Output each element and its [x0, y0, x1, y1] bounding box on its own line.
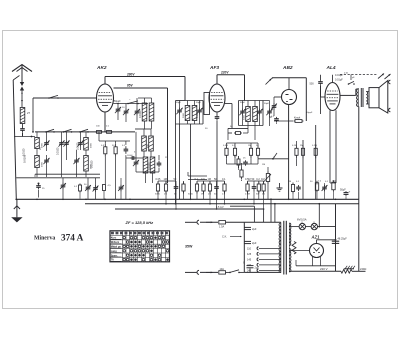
vertical feed x315.7	[315, 125, 317, 199]
resistor R18	[302, 145, 304, 148]
resistor R4	[115, 144, 117, 147]
capacitor osc link	[126, 157, 143, 159]
svg-text:ZF = 128,5 kHz: ZF = 128,5 kHz	[125, 220, 154, 225]
resistor/capacitor 50 x176	[175, 184, 177, 187]
svg-text:5000: 5000	[183, 112, 185, 118]
svg-text:0.0100: 0.0100	[76, 142, 79, 150]
wire mains top	[200, 221, 218, 223]
svg-text:0.0100: 0.0100	[56, 147, 59, 155]
wire AK2 cathode down	[104, 112, 106, 132]
resistor row AL4 a	[316, 181, 318, 183]
wire antenna lead-in	[21, 65, 23, 83]
lamp La2	[311, 223, 317, 229]
svg-text:0.2M: 0.2M	[312, 145, 317, 147]
oscillator coil L7b upper	[149, 103, 154, 121]
svg-text:5000: 5000	[197, 112, 199, 118]
trimmer osc C10	[125, 109, 127, 112]
trimmer C7	[87, 185, 89, 188]
svg-text:220V: 220V	[220, 71, 229, 75]
coil T2a	[246, 107, 251, 122]
power transformer core	[283, 221, 285, 275]
wire primary bottom down	[358, 107, 360, 200]
svg-text:2M: 2M	[300, 145, 303, 147]
svg-text:50µµF: 50µµF	[114, 101, 121, 103]
power transformer secondary upper	[289, 223, 291, 246]
coil T1a	[185, 106, 190, 121]
svg-text:10A: 10A	[220, 268, 225, 271]
wire grid line to AK2	[33, 97, 97, 99]
trimmer lower left	[120, 185, 122, 188]
vertical feed x303	[302, 140, 304, 199]
wire L2 links	[36, 132, 38, 138]
svg-text:220 V: 220 V	[320, 267, 328, 271]
fuse 10A	[219, 271, 226, 274]
resistor R11	[226, 145, 228, 148]
wire AK2 top cap to 280V rail	[104, 77, 106, 85]
IF transformer T1 frame	[175, 101, 177, 125]
resistor/capacitor row x183.5	[183, 182, 185, 185]
resistor bleeder 240	[341, 269, 352, 273]
wire AF3 top cap	[216, 75, 218, 84]
trimmer osc C9	[117, 107, 119, 110]
mains terminal top	[185, 221, 197, 223]
svg-text:0.0100: 0.0100	[148, 162, 151, 170]
oscillator coil L10	[150, 157, 155, 173]
svg-text:AK2: AK2	[96, 65, 107, 71]
wire switch row	[35, 131, 135, 133]
tube AF3	[209, 84, 225, 112]
wire AZ1 cathode to B+	[316, 240, 318, 244]
ground symbol	[16, 199, 18, 217]
resistor/capacitor 0.1 x197	[196, 182, 198, 185]
trimmer row AL4 b	[324, 185, 326, 188]
IF transformer T2 frame	[238, 101, 240, 126]
svg-text:Krach: Krach	[294, 117, 301, 120]
wire AB2 frame top	[272, 77, 306, 79]
svg-text:2µF: 2µF	[255, 267, 260, 270]
electrolytic 50uF+	[345, 191, 347, 193]
svg-text:27: 27	[27, 111, 31, 115]
svg-text:5000: 5000	[155, 194, 161, 196]
trimmer C-b1	[61, 140, 63, 143]
wire T1 primary return down	[179, 124, 181, 199]
wire bus drop b	[263, 209, 265, 222]
power transformer secondary lower	[289, 249, 291, 273]
svg-text:220: 220	[247, 264, 252, 267]
coil L3a	[84, 138, 89, 151]
trimmer C-a lower	[46, 158, 48, 161]
wire osc coil links	[143, 151, 145, 157]
svg-text:Minerva: Minerva	[34, 236, 55, 242]
capacitor 500pF	[320, 80, 322, 82]
trimmer T2 primary	[242, 109, 244, 112]
resistor R10 vertical mid	[241, 168, 243, 171]
wire bus drop d	[274, 204, 276, 223]
resistor bottom left pair	[79, 184, 81, 186]
svg-text:1M: 1M	[288, 181, 291, 183]
lamp La1	[299, 223, 305, 229]
coil L3b	[84, 156, 89, 172]
potentiometer volume	[267, 171, 269, 174]
wire chassis bus 2	[85, 203, 359, 205]
svg-text:4,5 mV: 4,5 mV	[216, 206, 224, 209]
switch S1b	[45, 131, 47, 133]
resistor R13	[250, 145, 252, 148]
resistor R19	[315, 145, 317, 148]
svg-text:50µµF: 50µµF	[306, 112, 313, 114]
svg-text:0000: 0000	[41, 161, 43, 167]
wire AZ1 pins	[312, 257, 314, 266]
capacitor C6 bottom	[38, 184, 40, 186]
svg-text:30pF: 30pF	[196, 102, 202, 104]
trimmer AB2 grid	[274, 96, 282, 98]
capacitor C11	[125, 146, 127, 149]
coil L2b	[35, 156, 40, 168]
wire AL4 grid line down	[320, 85, 322, 114]
terminal arrows top right	[378, 74, 384, 79]
resistor R15	[238, 156, 240, 159]
svg-text:280V: 280V	[126, 73, 135, 77]
trimmer T1 secondary	[199, 108, 201, 111]
arrow on antenna lead	[21, 95, 23, 102]
speaker terminals	[389, 80, 391, 84]
svg-text:AB2: AB2	[282, 65, 293, 71]
svg-text:6V/0,5A: 6V/0,5A	[297, 217, 307, 221]
wire AF3 screen link	[225, 103, 232, 105]
oscillator coil L8	[149, 136, 154, 151]
svg-text:5000: 5000	[188, 194, 194, 196]
svg-text:0.0100: 0.0100	[139, 110, 142, 118]
wire speaker return down	[358, 199, 360, 271]
mains terminal bottom	[185, 271, 197, 273]
trimmer T2 secondary	[259, 109, 261, 112]
ground symbol detector	[279, 183, 281, 188]
svg-text:0.01µF: 0.01µF	[335, 79, 343, 82]
resistor Krach	[294, 120, 296, 122]
svg-text:AZ1: AZ1	[311, 235, 321, 240]
wire antenna down to junction	[22, 133, 24, 137]
choke field coil zigzag	[292, 242, 296, 255]
wire component row top links	[158, 180, 176, 182]
wire chassis bus 3	[115, 208, 264, 210]
tube AB2	[282, 90, 297, 105]
wire L3 links	[85, 132, 87, 138]
svg-text:374 A: 374 A	[61, 233, 84, 243]
resistor row AL4 c	[333, 180, 335, 182]
wire AL4 plate to output transformer	[340, 94, 356, 96]
power transformer primary taps	[259, 247, 281, 249]
trimmer efter T2	[269, 109, 271, 112]
resistor R17	[292, 183, 294, 185]
resistor/capacitor 0.05 x158	[157, 182, 159, 185]
resistor/capacitor 50 x254	[253, 184, 255, 187]
svg-text:1M: 1M	[201, 194, 204, 196]
svg-text:0.5M: 0.5M	[245, 194, 250, 196]
tube AZ1 rectifier	[310, 244, 324, 258]
wire T1 secondary drop	[190, 124, 192, 199]
wire osc bottom row	[136, 171, 159, 173]
output transformer secondary	[366, 92, 368, 105]
capacitor C16	[298, 185, 300, 187]
resistor R1 under AK2	[95, 131, 97, 133]
svg-text:2µF: 2µF	[252, 241, 257, 245]
antenna coil L1	[20, 108, 25, 124]
wire screen rail drop	[167, 88, 169, 183]
tube AL4	[325, 83, 340, 111]
resistor R16	[296, 145, 298, 148]
wire AL4 grid feed	[320, 75, 322, 80]
trimmer C-c lower	[76, 158, 78, 161]
wire bus drop c	[270, 199, 272, 222]
wire chassis bus 1	[16, 198, 359, 200]
resistor/capacitor 1M x210	[209, 182, 211, 185]
wire AF3 cathode	[216, 112, 218, 115]
wire vertical branch x33	[32, 98, 34, 132]
resistor R12	[234, 145, 236, 148]
svg-text:110: 110	[247, 247, 252, 250]
svg-text:0000: 0000	[90, 142, 92, 148]
trimmer C5	[62, 183, 64, 186]
capacitor 2uF upper	[244, 226, 251, 228]
svg-text:AF3: AF3	[209, 65, 219, 71]
svg-text:+: +	[349, 190, 351, 194]
svg-text:30pF: 30pF	[176, 102, 182, 104]
svg-text:50µF: 50µF	[340, 189, 346, 192]
wire AB2 top to circle	[288, 78, 290, 90]
wire AL4 top cap	[332, 75, 334, 82]
svg-text:10000: 10000	[127, 155, 133, 157]
tube AK2	[97, 84, 114, 112]
wire mains to transformer	[244, 271, 280, 273]
oscillator coil L7	[142, 136, 147, 151]
output transformer primary	[357, 88, 359, 107]
arrow terminal AVC	[266, 79, 272, 85]
capacitor AF3 cathode	[216, 115, 218, 117]
svg-text:30pF: 30pF	[240, 102, 246, 104]
power transformer primary winding	[280, 222, 282, 272]
svg-text:48.25µF: 48.25µF	[338, 238, 348, 241]
switch osc	[127, 103, 129, 105]
wire AL4 cathode down	[329, 110, 331, 183]
svg-text:240Ω: 240Ω	[360, 267, 366, 271]
capacitor in antenna lead	[22, 127, 24, 129]
wire HV bottom	[289, 270, 341, 272]
svg-text:1.5A: 1.5A	[219, 226, 224, 229]
coil T2b	[253, 107, 258, 122]
svg-text:85V: 85V	[127, 84, 134, 88]
wire AL4 screen down	[335, 110, 337, 183]
wire heater dashed top	[340, 74, 377, 76]
wire antenna tap	[14, 136, 35, 138]
resistor/capacitor 0.5M x247.5	[247, 182, 249, 185]
capacitor C 2uF mains	[247, 265, 254, 267]
resistor R3b lower	[103, 184, 105, 186]
output transformer core	[360, 88, 362, 107]
trimmer C8	[95, 185, 97, 188]
trimmer osc C12	[135, 160, 137, 163]
svg-text:1M: 1M	[248, 145, 251, 147]
svg-text:240: 240	[247, 269, 252, 272]
wire earth side branch	[13, 80, 16, 199]
wire AK2 anode side to osc coil	[114, 103, 149, 105]
coil T1b	[192, 106, 197, 121]
wire pilot lamp feed	[289, 226, 299, 228]
wire AB2 cathode down	[288, 105, 290, 200]
trimmer T1 primary	[179, 108, 181, 111]
chassis symbol near bleeder	[344, 268, 354, 270]
svg-text:500: 500	[310, 83, 315, 86]
svg-text:145: 145	[247, 258, 252, 261]
wire B+ vertical	[335, 204, 337, 271]
oscillator coil L9	[143, 157, 148, 173]
svg-text:0.5M: 0.5M	[223, 145, 228, 147]
switch S1c	[63, 131, 65, 133]
oscillator coil L7a upper	[142, 103, 147, 121]
capacitor C15	[245, 160, 247, 162]
svg-text:0.0100: 0.0100	[91, 160, 94, 168]
resistor R14	[257, 145, 259, 148]
svg-text:AL4: AL4	[326, 65, 336, 71]
resistor/capacitor 0.2 x258.8	[258, 182, 260, 185]
wire under T2 rows	[228, 127, 248, 129]
wire mains vertical	[243, 222, 245, 272]
resistor/capacitor 0.3 x203.5	[203, 182, 205, 185]
wire T2 secondary down	[254, 126, 256, 141]
capacitor 2uF lower	[244, 240, 251, 242]
svg-text:5000: 5000	[244, 114, 246, 120]
wire AB2 level row	[274, 120, 293, 122]
wire AVC link	[188, 175, 207, 177]
switch tone	[348, 83, 350, 85]
alignment table	[110, 231, 170, 262]
wire AB2 frame right	[305, 78, 307, 121]
capacitor C13	[158, 161, 160, 163]
resistor/capacitor 1M x263.6	[263, 182, 265, 185]
wire primary top	[355, 89, 357, 95]
wire AZ1 filament from transformer	[289, 250, 309, 252]
wire bus drop a	[253, 206, 255, 222]
wire AVC line upper	[35, 173, 100, 175]
resistor/capacitor 0.1 x224.5	[224, 182, 226, 185]
wire detector output	[258, 158, 289, 160]
wire mains bottom	[200, 271, 218, 273]
capacitor 50uF AB2	[276, 117, 278, 119]
wire AVC line lower	[16, 177, 100, 179]
resistor R2 under AK2	[105, 131, 107, 133]
resistor/capacitor 50 x216.5	[216, 184, 218, 187]
switch S1a	[48, 97, 50, 99]
trimmer C-c upper	[80, 140, 82, 143]
svg-text:125: 125	[247, 253, 252, 256]
wire 85V screen rail	[114, 87, 168, 89]
speaker LS	[369, 88, 379, 108]
resistor R3	[104, 144, 106, 147]
wire drop to T2	[244, 75, 246, 101]
svg-text:C.K.: C.K.	[222, 235, 227, 239]
trimmer osc upper	[136, 109, 138, 112]
wire T1 left down	[175, 124, 177, 204]
svg-text:C: C	[243, 262, 245, 265]
wire osc upper links	[144, 98, 146, 103]
svg-text:1M: 1M	[262, 164, 265, 166]
antenna A	[12, 65, 32, 72]
spark gap arrester	[20, 82, 24, 86]
trimmer C-a upper	[46, 140, 48, 143]
wire row under resistors	[99, 140, 130, 142]
electrolytic 48/25uF	[332, 240, 339, 242]
switch mains	[226, 271, 231, 273]
fuse 1.5A	[219, 221, 226, 224]
wire 280V rail drop	[184, 77, 186, 101]
svg-text:35W: 35W	[185, 245, 193, 249]
svg-text:30pF: 30pF	[264, 103, 270, 105]
resistor/capacitor 1M x166	[165, 182, 167, 185]
shield box left of AF3	[204, 93, 210, 115]
trimmer C-b2	[66, 140, 68, 143]
wire heater centre tap up	[318, 204, 320, 227]
svg-text:2µF: 2µF	[252, 227, 257, 231]
coil L2a	[35, 138, 40, 149]
svg-text:0000: 0000	[41, 142, 43, 148]
svg-text:0.1M: 0.1M	[292, 145, 297, 147]
svg-text:5000: 5000	[257, 114, 259, 120]
switch S1d	[79, 131, 81, 133]
svg-text:0.0100: 0.0100	[22, 148, 25, 156]
wire links under AF3	[227, 163, 259, 165]
